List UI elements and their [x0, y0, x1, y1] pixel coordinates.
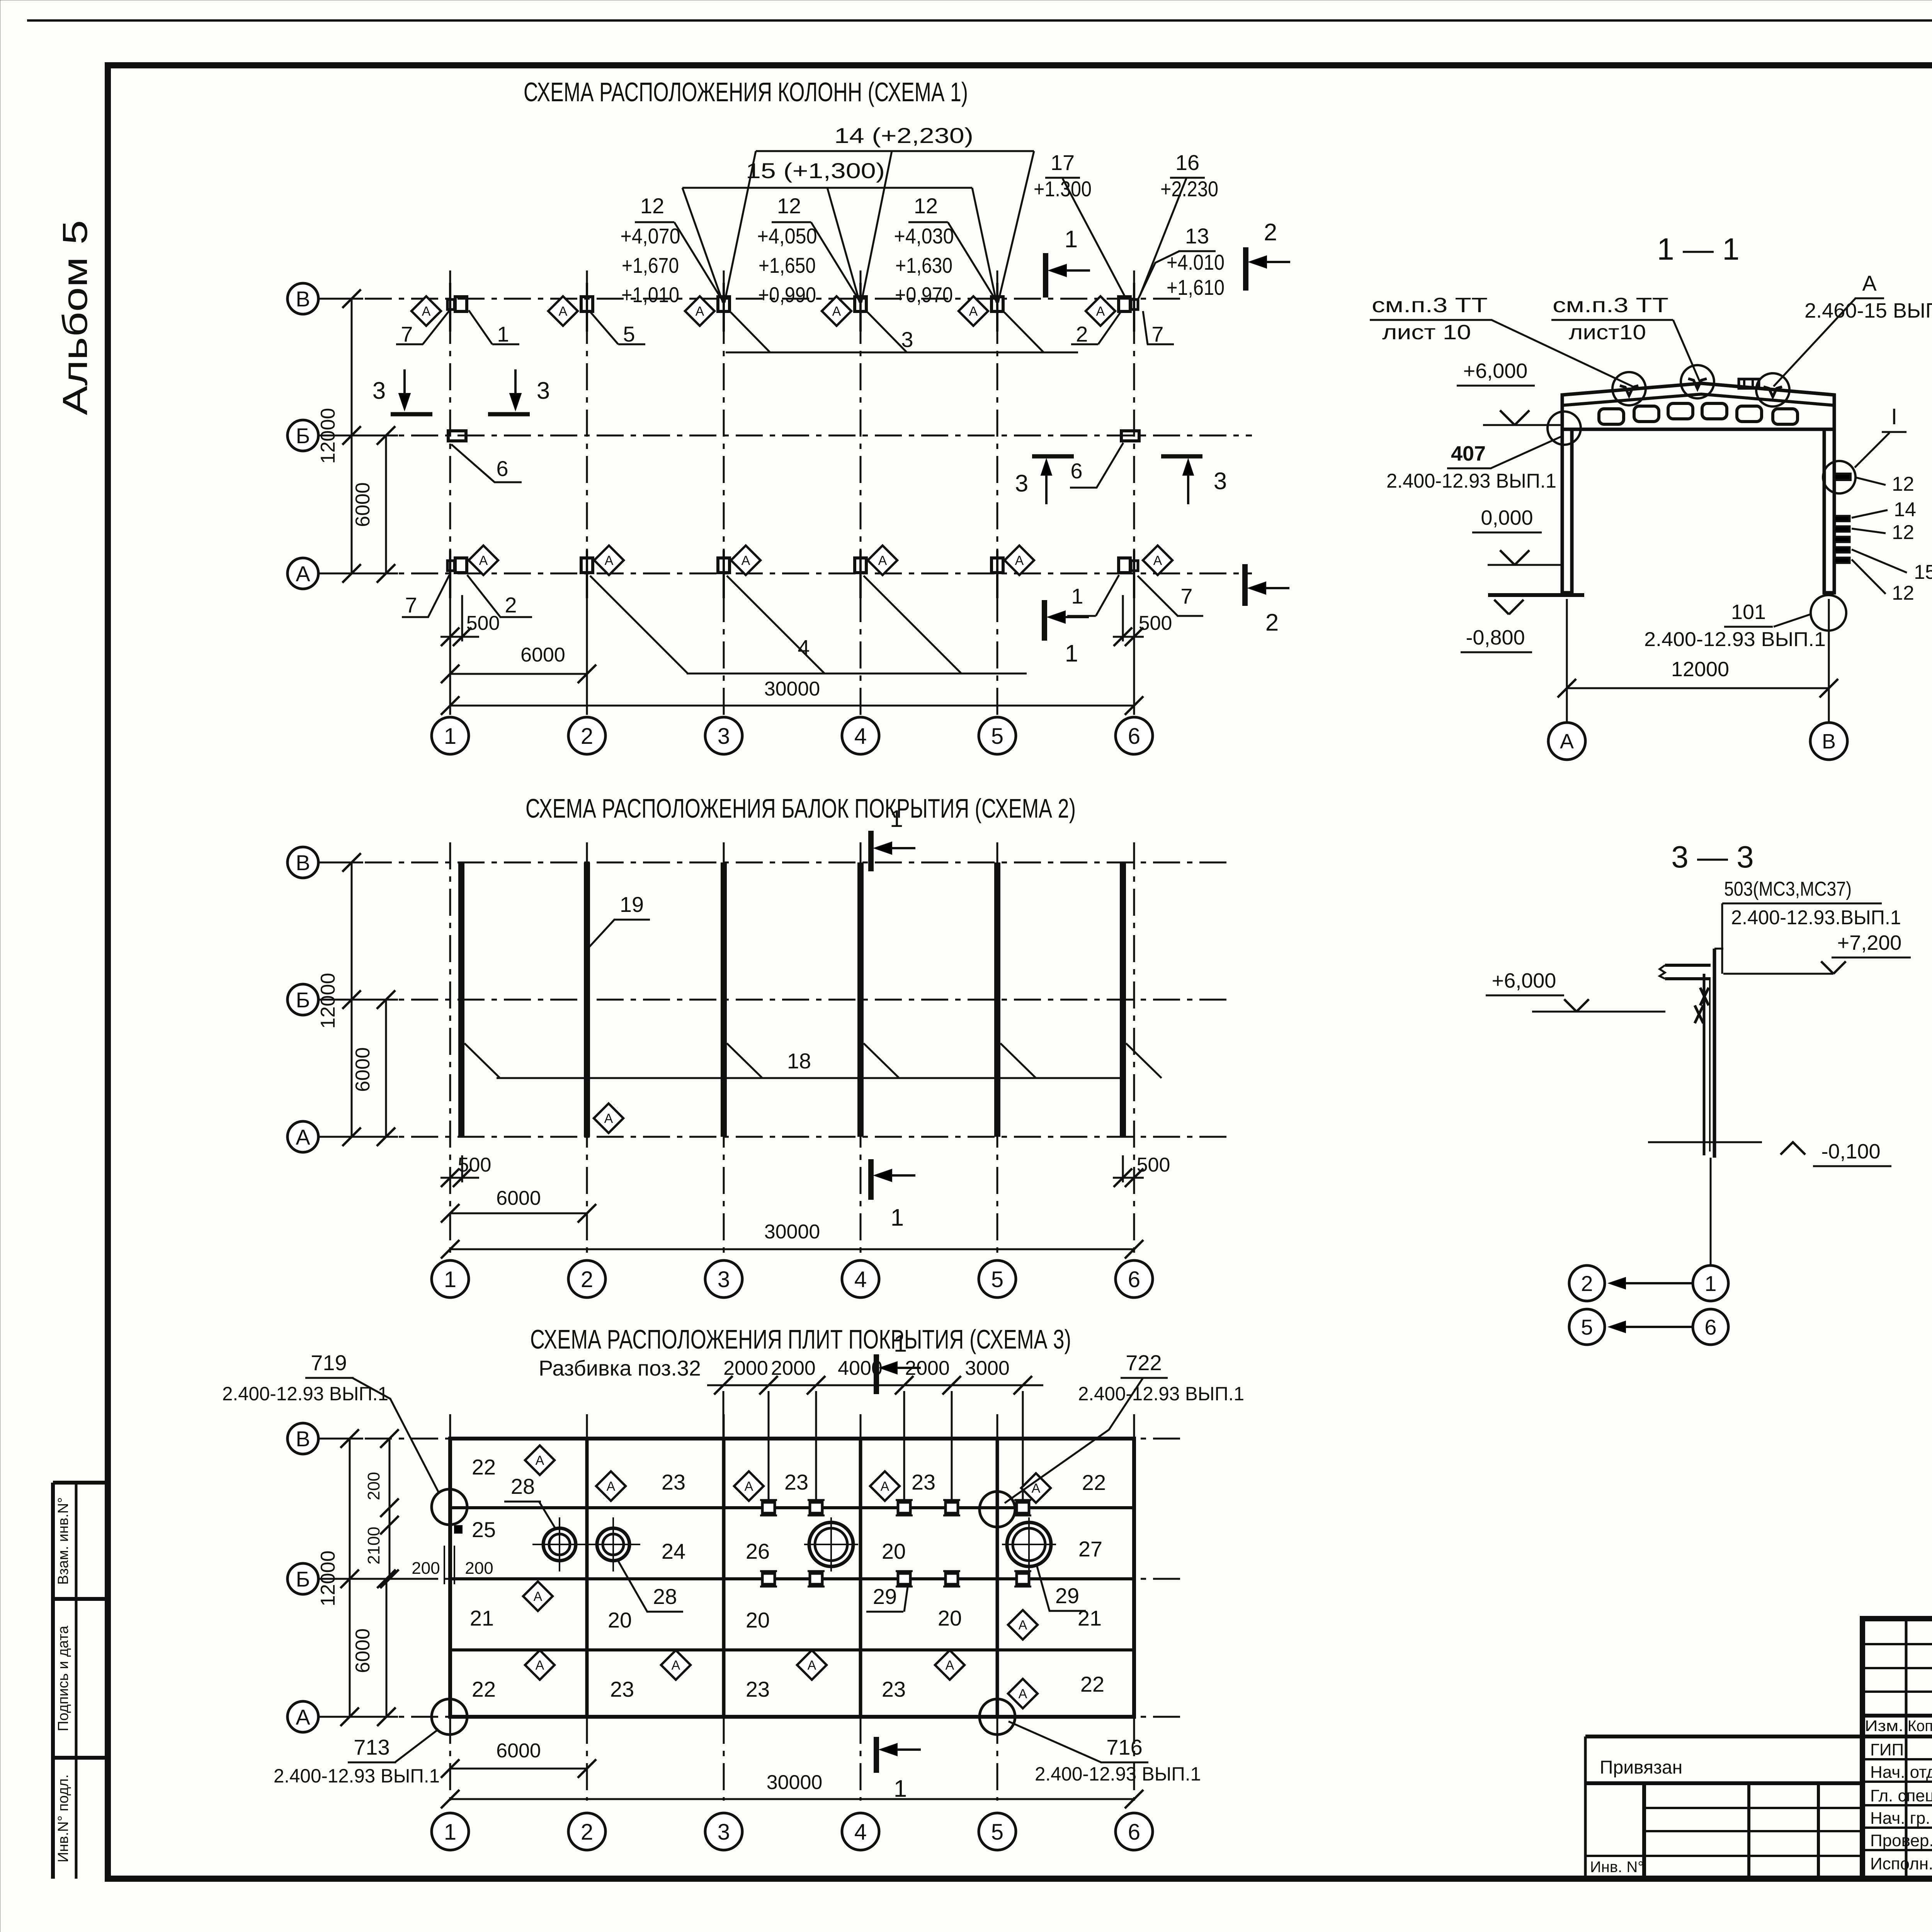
svg-text:6000: 6000: [352, 1047, 374, 1092]
svg-text:28: 28: [511, 1474, 535, 1498]
svg-text:2: 2: [1265, 609, 1279, 636]
svg-text:А: А: [296, 1705, 310, 1729]
svg-text:13: 13: [1185, 224, 1209, 248]
svg-text:Б: Б: [296, 423, 310, 448]
svg-text:А: А: [742, 553, 750, 568]
svg-text:Провер.: Провер.: [1870, 1831, 1932, 1850]
svg-text:23: 23: [912, 1470, 935, 1494]
svg-text:12: 12: [1892, 521, 1914, 544]
svg-text:А: А: [536, 1453, 544, 1468]
svg-text:500: 500: [458, 1154, 492, 1176]
svg-text:А: А: [969, 304, 978, 319]
svg-text:А: А: [696, 304, 704, 319]
svg-text:19: 19: [620, 892, 644, 917]
svg-text:В: В: [296, 287, 310, 311]
svg-text:2100: 2100: [364, 1527, 383, 1565]
svg-text:6: 6: [1128, 724, 1140, 749]
svg-text:Подпись и дата: Подпись и дата: [55, 1625, 71, 1731]
svg-text:4: 4: [854, 1267, 867, 1292]
svg-text:200: 200: [465, 1559, 493, 1578]
svg-text:12000: 12000: [1671, 658, 1729, 681]
svg-text:А: А: [745, 1479, 753, 1494]
svg-text:-0,100: -0,100: [1821, 1140, 1880, 1163]
svg-text:5: 5: [991, 1820, 1003, 1845]
svg-text:см.п.3 ТТ: см.п.3 ТТ: [1553, 294, 1668, 317]
svg-text:2.400-12.93.ВЫП.1: 2.400-12.93.ВЫП.1: [1731, 906, 1901, 929]
svg-text:Нач. отд.: Нач. отд.: [1870, 1763, 1932, 1782]
svg-text:5: 5: [991, 724, 1003, 749]
svg-text:6000: 6000: [496, 1187, 541, 1209]
svg-text:Альбом 5: Альбом 5: [56, 220, 95, 415]
svg-text:+6,000: +6,000: [1463, 359, 1528, 383]
svg-text:5: 5: [623, 322, 635, 346]
svg-text:А: А: [946, 1658, 954, 1673]
svg-text:Взам. инв.N°: Взам. инв.N°: [55, 1497, 71, 1585]
svg-text:6000: 6000: [352, 1628, 374, 1673]
svg-text:6: 6: [1704, 1315, 1716, 1339]
svg-text:Коп.уч: Коп.уч: [1908, 1718, 1932, 1735]
svg-text:Инв. N°: Инв. N°: [1590, 1859, 1644, 1876]
svg-text:26: 26: [746, 1539, 770, 1563]
svg-text:6000: 6000: [520, 644, 565, 666]
svg-text:12: 12: [914, 194, 938, 218]
svg-text:15: 15: [1914, 561, 1932, 583]
svg-text:А: А: [878, 553, 887, 568]
svg-text:А: А: [1153, 553, 1162, 568]
svg-text:+4,050: +4,050: [757, 224, 817, 248]
svg-text:12: 12: [640, 194, 664, 218]
svg-text:Исполн.: Исполн.: [1870, 1854, 1932, 1873]
svg-text:2: 2: [1076, 322, 1088, 346]
svg-text:+2.230: +2.230: [1160, 177, 1218, 201]
svg-text:20: 20: [938, 1606, 962, 1630]
svg-text:А: А: [881, 1479, 889, 1494]
svg-text:1: 1: [894, 1330, 907, 1357]
svg-text:23: 23: [746, 1677, 770, 1701]
svg-text:2: 2: [1264, 219, 1277, 246]
svg-text:1: 1: [497, 322, 509, 346]
svg-text:3000: 3000: [965, 1357, 1010, 1379]
svg-text:16: 16: [1175, 150, 1199, 175]
svg-text:В: В: [296, 850, 310, 875]
svg-text:А: А: [1019, 1687, 1027, 1701]
svg-text:2.400-12.93 ВЫП.1: 2.400-12.93 ВЫП.1: [274, 1765, 440, 1787]
svg-text:лист10: лист10: [1569, 321, 1646, 344]
svg-text:7: 7: [1180, 584, 1192, 608]
svg-text:-0,800: -0,800: [1466, 626, 1525, 649]
svg-text:20: 20: [882, 1539, 906, 1563]
svg-text:0,000: 0,000: [1481, 506, 1533, 529]
svg-text:24: 24: [662, 1539, 685, 1563]
svg-text:2: 2: [581, 724, 593, 749]
svg-text:719: 719: [311, 1350, 347, 1375]
svg-text:200: 200: [412, 1559, 440, 1578]
svg-text:3: 3: [372, 378, 386, 404]
svg-text:+6,000: +6,000: [1492, 969, 1556, 992]
svg-text:23: 23: [882, 1677, 906, 1701]
svg-text:22: 22: [1080, 1672, 1104, 1696]
svg-text:А: А: [422, 304, 431, 319]
svg-text:3: 3: [718, 724, 730, 749]
svg-text:+4,070: +4,070: [621, 224, 680, 248]
svg-text:3: 3: [718, 1267, 730, 1292]
svg-text:2000: 2000: [771, 1357, 816, 1379]
svg-text:2: 2: [1581, 1271, 1593, 1296]
svg-text:Привязан: Привязан: [1600, 1757, 1682, 1778]
svg-text:см.п.3 ТТ: см.п.3 ТТ: [1372, 294, 1488, 317]
svg-text:А: А: [559, 304, 568, 319]
svg-text:722: 722: [1126, 1350, 1162, 1375]
svg-text:Гл. спец.: Гл. спец.: [1870, 1786, 1932, 1805]
svg-text:А: А: [1862, 271, 1877, 295]
svg-text:1: 1: [890, 806, 903, 832]
svg-text:27: 27: [1078, 1537, 1102, 1561]
svg-text:21: 21: [470, 1606, 494, 1630]
svg-text:+1,670: +1,670: [622, 253, 679, 277]
svg-text:4: 4: [854, 724, 867, 749]
svg-text:3: 3: [718, 1820, 730, 1845]
svg-text:1: 1: [1065, 226, 1078, 253]
svg-text:6: 6: [1070, 459, 1082, 483]
svg-text:2.400-12.93 ВЫП.1: 2.400-12.93 ВЫП.1: [1386, 470, 1556, 492]
svg-text:+0,970: +0,970: [895, 282, 953, 307]
svg-text:А: А: [1096, 304, 1105, 319]
svg-text:А: А: [672, 1658, 680, 1673]
svg-text:Б: Б: [296, 988, 310, 1012]
svg-text:+0,990: +0,990: [758, 282, 816, 307]
svg-text:30000: 30000: [764, 1221, 820, 1243]
svg-text:1 — 1: 1 — 1: [1657, 232, 1739, 266]
svg-text:23: 23: [610, 1677, 634, 1701]
svg-text:22: 22: [1082, 1470, 1106, 1495]
svg-text:Разбивка поз.32: Разбивка поз.32: [539, 1356, 701, 1380]
svg-text:1: 1: [444, 1267, 456, 1292]
svg-text:+1,630: +1,630: [895, 253, 952, 277]
svg-text:лист 10: лист 10: [1382, 321, 1471, 344]
svg-text:14: 14: [1894, 498, 1916, 521]
svg-text:30000: 30000: [764, 678, 820, 700]
svg-text:6: 6: [496, 456, 508, 481]
svg-text:7: 7: [1151, 322, 1163, 346]
svg-text:3: 3: [537, 378, 550, 404]
svg-text:+1,010: +1,010: [621, 282, 679, 307]
svg-text:А: А: [607, 1479, 616, 1494]
svg-text:А: А: [808, 1658, 816, 1673]
svg-text:I: I: [1891, 404, 1897, 429]
svg-text:15 (+1,300): 15 (+1,300): [746, 158, 885, 183]
svg-text:2.400-12.93 ВЫП.1: 2.400-12.93 ВЫП.1: [1644, 628, 1826, 651]
svg-text:А: А: [1560, 730, 1574, 753]
svg-text:А: А: [1019, 1618, 1027, 1633]
svg-text:6: 6: [1128, 1267, 1140, 1292]
svg-text:А: А: [604, 1111, 613, 1126]
svg-text:3 — 3: 3 — 3: [1671, 840, 1753, 874]
svg-text:А: А: [605, 553, 614, 568]
svg-text:2.400-12.93 ВЫП.1: 2.400-12.93 ВЫП.1: [1078, 1383, 1244, 1405]
svg-text:17: 17: [1051, 150, 1075, 175]
svg-text:29: 29: [873, 1584, 897, 1609]
svg-text:2000: 2000: [723, 1357, 768, 1379]
svg-text:6000: 6000: [352, 482, 374, 527]
svg-text:6000: 6000: [496, 1740, 541, 1762]
svg-text:В: В: [296, 1427, 310, 1451]
svg-text:1: 1: [444, 1820, 456, 1845]
svg-text:500: 500: [1139, 612, 1172, 634]
svg-text:407: 407: [1451, 442, 1486, 465]
svg-text:5: 5: [1581, 1315, 1593, 1339]
svg-text:СХЕМА РАСПОЛОЖЕНИЯ КОЛОНН (: СХЕМА РАСПОЛОЖЕНИЯ КОЛОНН (СХЕМА 1): [524, 77, 968, 107]
svg-text:6: 6: [1128, 1820, 1140, 1845]
svg-text:14 (+2,230): 14 (+2,230): [834, 123, 973, 148]
svg-text:А: А: [296, 561, 310, 586]
svg-text:2.460-15 ВЫП.0 Лист3: 2.460-15 ВЫП.0 Лист3: [1804, 299, 1932, 322]
svg-text:22: 22: [472, 1677, 496, 1701]
svg-text:2.400-12.93 ВЫП.1: 2.400-12.93 ВЫП.1: [222, 1383, 388, 1405]
svg-text:20: 20: [746, 1608, 770, 1632]
svg-text:1: 1: [894, 1776, 907, 1802]
svg-text:3: 3: [1015, 470, 1028, 497]
svg-text:12: 12: [777, 194, 801, 218]
svg-text:30000: 30000: [767, 1771, 823, 1794]
svg-text:А: А: [534, 1589, 543, 1604]
svg-text:23: 23: [662, 1470, 685, 1494]
svg-text:28: 28: [653, 1584, 677, 1609]
svg-text:713: 713: [354, 1735, 389, 1759]
svg-text:18: 18: [787, 1049, 811, 1073]
svg-text:А: А: [479, 553, 488, 568]
svg-text:2: 2: [581, 1820, 593, 1845]
svg-text:А: А: [1015, 553, 1024, 568]
svg-text:500: 500: [466, 612, 500, 634]
svg-text:23: 23: [784, 1470, 808, 1494]
svg-text:22: 22: [472, 1455, 496, 1479]
svg-text:716: 716: [1106, 1735, 1142, 1759]
svg-text:2.400-12.93 ВЫП.1: 2.400-12.93 ВЫП.1: [1035, 1763, 1201, 1785]
svg-text:Б: Б: [296, 1567, 310, 1591]
svg-text:+7,200: +7,200: [1837, 931, 1902, 954]
svg-text:29: 29: [1055, 1583, 1079, 1608]
svg-text:1: 1: [444, 724, 456, 749]
svg-text:А: А: [536, 1658, 544, 1673]
svg-text:200: 200: [364, 1472, 383, 1500]
svg-text:101: 101: [1731, 600, 1766, 624]
svg-text:1: 1: [891, 1204, 904, 1231]
svg-text:20: 20: [608, 1608, 632, 1632]
svg-text:ГИП: ГИП: [1870, 1740, 1904, 1759]
svg-text:1: 1: [1065, 640, 1078, 667]
svg-text:+1,650: +1,650: [759, 253, 816, 277]
svg-text:СХЕМА РАСПОЛОЖЕНИЯ ПЛИТ ПОК: СХЕМА РАСПОЛОЖЕНИЯ ПЛИТ ПОКРЫТИЯ (СХЕМА …: [530, 1324, 1071, 1354]
svg-text:7: 7: [401, 322, 413, 346]
svg-text:2: 2: [581, 1267, 593, 1292]
svg-text:7: 7: [405, 593, 417, 617]
svg-text:21: 21: [1078, 1606, 1102, 1630]
svg-text:12: 12: [1892, 473, 1914, 495]
svg-text:2: 2: [505, 593, 517, 617]
svg-text:А: А: [296, 1125, 310, 1149]
svg-text:12000: 12000: [317, 973, 339, 1029]
svg-text:5: 5: [991, 1267, 1003, 1292]
svg-text:12: 12: [1892, 582, 1914, 604]
svg-text:3: 3: [1214, 468, 1227, 495]
svg-text:В: В: [1822, 730, 1836, 753]
svg-text:Инв.N° подл.: Инв.N° подл.: [55, 1774, 71, 1862]
svg-text:1: 1: [1704, 1271, 1716, 1296]
svg-text:А: А: [832, 304, 841, 319]
svg-text:4: 4: [854, 1820, 867, 1845]
svg-text:Нач. гр.: Нач. гр.: [1870, 1809, 1930, 1828]
svg-text:25: 25: [472, 1517, 496, 1542]
svg-text:1: 1: [1071, 584, 1083, 608]
svg-text:+4,030: +4,030: [894, 224, 954, 248]
svg-text:+1,610: +1,610: [1167, 275, 1225, 299]
svg-text:Изм.: Изм.: [1865, 1718, 1903, 1735]
svg-text:500: 500: [1137, 1154, 1170, 1176]
svg-text:СХЕМА РАСПОЛОЖЕНИЯ БАЛОК ПО: СХЕМА РАСПОЛОЖЕНИЯ БАЛОК ПОКРЫТИЯ (СХЕМА…: [526, 793, 1076, 823]
svg-text:503(МС3,МС37): 503(МС3,МС37): [1724, 878, 1852, 900]
